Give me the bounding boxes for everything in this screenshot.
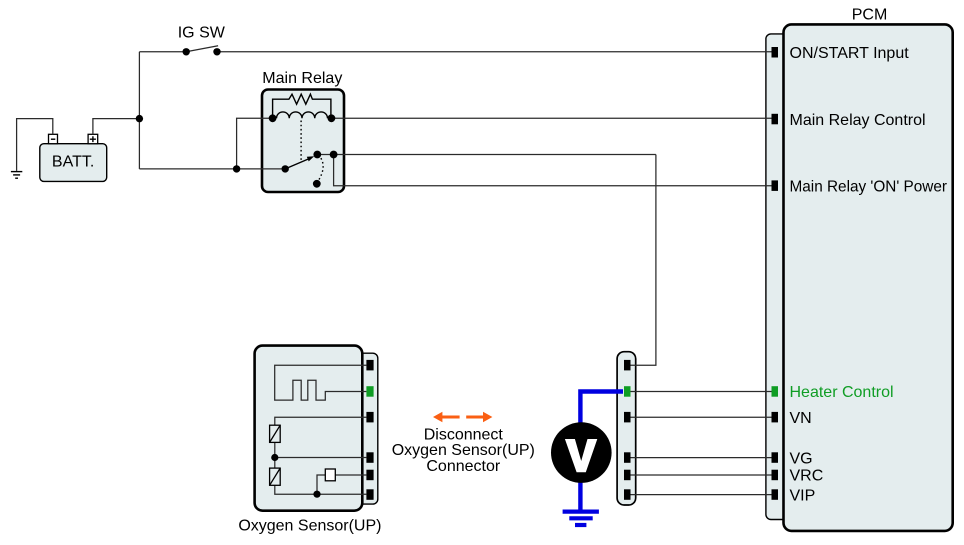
svg-text:Main Relay 'ON' Power: Main Relay 'ON' Power: [790, 178, 948, 195]
svg-text:Oxygen Sensor(UP): Oxygen Sensor(UP): [392, 442, 535, 459]
svg-text:Connector: Connector: [426, 458, 500, 475]
svg-text:Disconnect: Disconnect: [424, 426, 504, 443]
svg-text:VRC: VRC: [790, 468, 824, 485]
svg-text:Main Relay: Main Relay: [262, 70, 342, 87]
svg-text:IG SW: IG SW: [178, 24, 226, 41]
svg-text:PCM: PCM: [852, 6, 888, 23]
svg-text:Heater Control: Heater Control: [790, 384, 894, 401]
svg-text:Oxygen Sensor(UP): Oxygen Sensor(UP): [238, 517, 381, 534]
svg-text:VIP: VIP: [790, 487, 816, 504]
svg-text:VN: VN: [790, 410, 812, 427]
svg-text:ON/START Input: ON/START Input: [790, 45, 910, 62]
svg-text:Main Relay Control: Main Relay Control: [790, 112, 926, 129]
svg-text:VG: VG: [790, 450, 813, 467]
svg-text:BATT.: BATT.: [52, 153, 94, 170]
